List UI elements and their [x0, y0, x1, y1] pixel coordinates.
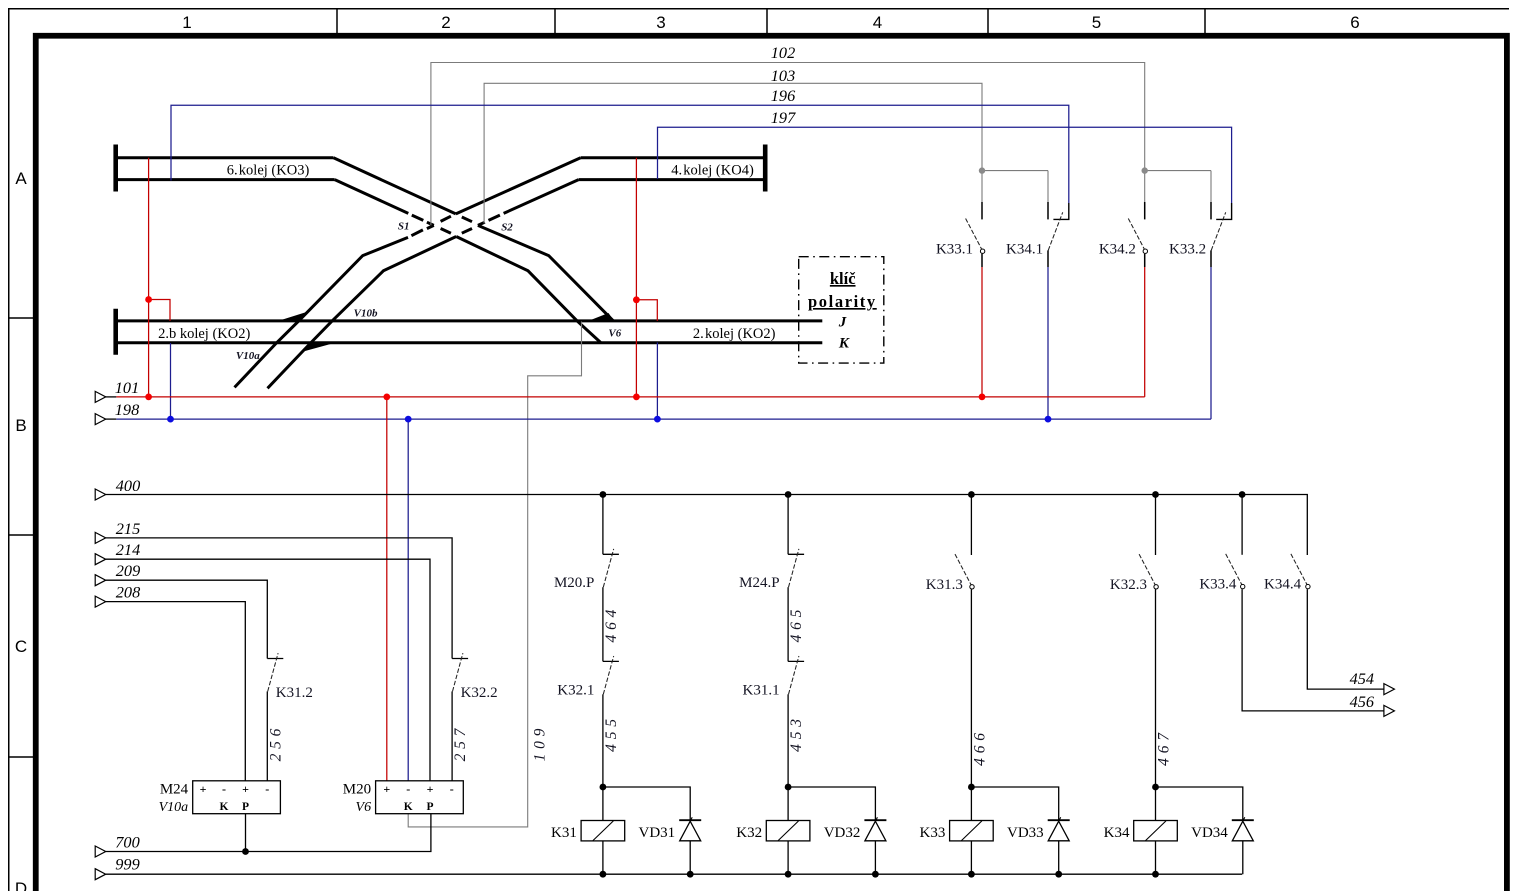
svg-text:215: 215 — [116, 519, 140, 538]
svg-text:K31.1: K31.1 — [743, 683, 780, 699]
svg-text:+: + — [383, 782, 390, 796]
svg-text:+: + — [427, 782, 434, 796]
svg-text:3: 3 — [656, 13, 665, 32]
svg-text:VD32: VD32 — [824, 825, 861, 841]
svg-text:256: 256 — [267, 724, 284, 762]
svg-text:454: 454 — [1350, 669, 1374, 688]
svg-text:K34.4: K34.4 — [1264, 576, 1302, 592]
svg-text:K32.2: K32.2 — [461, 685, 498, 701]
svg-text:214: 214 — [116, 540, 140, 559]
svg-text:K34: K34 — [1104, 825, 1130, 841]
svg-text:K31: K31 — [551, 825, 577, 841]
svg-text:-: - — [406, 782, 410, 796]
svg-text:4: 4 — [873, 13, 882, 32]
svg-text:klíč: klíč — [830, 269, 856, 288]
svg-text:K32: K32 — [736, 825, 762, 841]
svg-text:V10a: V10a — [159, 800, 189, 815]
svg-text:K: K — [838, 336, 850, 352]
svg-text:V6: V6 — [356, 800, 372, 815]
svg-text:K34.2: K34.2 — [1099, 241, 1136, 257]
svg-text:VD33: VD33 — [1007, 825, 1044, 841]
svg-text:103: 103 — [771, 66, 795, 85]
svg-text:VD31: VD31 — [639, 825, 676, 841]
svg-text:A: A — [15, 169, 27, 188]
svg-text:700: 700 — [115, 833, 139, 852]
svg-text:P: P — [242, 801, 249, 813]
svg-text:-: - — [222, 782, 226, 796]
svg-text:K: K — [220, 801, 229, 813]
svg-text:+: + — [200, 782, 207, 796]
svg-text:5: 5 — [1092, 13, 1101, 32]
svg-text:466: 466 — [971, 728, 988, 766]
svg-text:B: B — [15, 416, 26, 435]
svg-text:K: K — [404, 801, 413, 813]
svg-text:K31.3: K31.3 — [926, 577, 963, 593]
svg-text:V10a: V10a — [236, 350, 260, 362]
svg-text:M20: M20 — [343, 782, 371, 798]
svg-text:K33.1: K33.1 — [936, 241, 973, 257]
svg-text:K33: K33 — [920, 825, 946, 841]
svg-text:J: J — [838, 314, 847, 330]
svg-text:198: 198 — [115, 400, 139, 419]
svg-text:102: 102 — [771, 43, 795, 62]
svg-text:K31.2: K31.2 — [276, 685, 313, 701]
svg-text:S2: S2 — [501, 222, 513, 234]
svg-text:K32.1: K32.1 — [557, 683, 594, 699]
svg-text:-: - — [265, 782, 269, 796]
svg-text:M24.P: M24.P — [739, 575, 779, 591]
svg-text:M20.P: M20.P — [554, 575, 594, 591]
svg-text:M24: M24 — [160, 782, 189, 798]
svg-text:453: 453 — [788, 714, 805, 752]
svg-text:4. kolej (KO4): 4. kolej (KO4) — [671, 162, 754, 178]
svg-text:1: 1 — [182, 13, 191, 32]
svg-text:209: 209 — [116, 561, 140, 580]
svg-text:P: P — [426, 801, 433, 813]
svg-text:2.b kolej (KO2): 2.b kolej (KO2) — [158, 326, 250, 342]
svg-text:+: + — [242, 782, 249, 796]
svg-text:455: 455 — [603, 714, 620, 752]
svg-text:197: 197 — [771, 108, 796, 127]
svg-text:101: 101 — [115, 378, 139, 397]
svg-text:V10b: V10b — [354, 308, 378, 320]
svg-text:196: 196 — [771, 86, 796, 105]
svg-text:2. kolej (KO2): 2. kolej (KO2) — [693, 326, 776, 342]
svg-text:K34.1: K34.1 — [1006, 241, 1043, 257]
svg-text:-: - — [450, 782, 454, 796]
svg-text:VD34: VD34 — [1191, 825, 1228, 841]
svg-text:K33.2: K33.2 — [1169, 241, 1206, 257]
svg-text:109: 109 — [532, 724, 549, 762]
svg-text:6: 6 — [1350, 13, 1359, 32]
svg-text:V6: V6 — [608, 328, 621, 340]
svg-text:999: 999 — [115, 855, 139, 874]
svg-text:C: C — [15, 637, 27, 656]
svg-text:467: 467 — [1156, 728, 1173, 766]
svg-text:polarity: polarity — [808, 292, 877, 311]
svg-text:2: 2 — [441, 13, 450, 32]
svg-text:456: 456 — [1350, 692, 1375, 711]
svg-text:S1: S1 — [398, 220, 410, 232]
svg-text:465: 465 — [788, 605, 805, 643]
svg-text:208: 208 — [116, 583, 140, 602]
svg-text:400: 400 — [116, 476, 140, 495]
svg-text:464: 464 — [603, 605, 620, 643]
svg-text:257: 257 — [452, 724, 469, 762]
svg-text:K33.4: K33.4 — [1199, 576, 1237, 592]
svg-text:6. kolej (KO3): 6. kolej (KO3) — [227, 162, 310, 178]
svg-text:K32.3: K32.3 — [1110, 577, 1147, 593]
svg-text:D: D — [15, 879, 27, 891]
